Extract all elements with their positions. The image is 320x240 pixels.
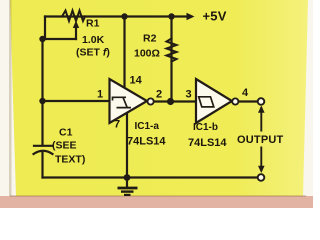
wire top rail [45,15,188,17]
svg-text:TEXT): TEXT) [55,154,85,166]
output arrowhead up [258,106,265,113]
ground stem [126,178,128,188]
wire left rail lower [41,153,43,178]
svg-text:(SEE: (SEE [52,140,77,152]
svg-text:100Ω: 100Ω [134,48,160,60]
svg-text:+5V: +5V [203,9,227,24]
+5V arrowhead [187,13,195,20]
svg-text:IC1-a: IC1-a [135,121,160,132]
wire pin 14 to +5V rail [123,17,125,88]
R1 wiper arrowhead [73,21,79,29]
node top rail / pin14 junction [121,13,127,19]
wire bottom ground rail [43,176,258,178]
svg-text:3: 3 [186,89,192,101]
ground bar 3 [124,194,131,196]
wire pin 1 input [43,100,110,102]
op-amp U1 inverter IC1-a triangle [110,79,148,123]
output terminal top [258,98,265,105]
node pin2/pin3/R2 junction [167,98,174,105]
capacitor C1 curved plate [34,151,53,154]
node top rail / R2 junction [168,13,174,19]
svg-text:14: 14 [130,75,143,87]
svg-text:OUTPUT: OUTPUT [237,134,284,146]
svg-text:R2: R2 [143,33,157,45]
svg-text:2: 2 [156,89,162,101]
ground bar 1 [118,187,138,190]
resistor R1 (potentiometer) zigzag [62,11,85,22]
wire pin4 to output terminal [238,100,257,102]
wire R1 wiper vertical [75,26,77,39]
svg-text:C1: C1 [59,127,73,139]
ground bar 2 [121,190,134,192]
output arrow lower segment [260,147,262,172]
resistor R2 zigzag [167,39,177,62]
node left rail / wiper junction [39,36,45,42]
node left rail / pin1 junction [39,98,45,104]
wire R1 wiper horizontal [43,38,77,40]
IC1-b output bubble [232,98,238,104]
svg-text:(SET f): (SET f) [76,47,110,59]
wire pin2 to pin3 [154,100,196,102]
wire left rail upper [41,39,43,145]
svg-text:4: 4 [242,87,249,99]
capacitor C1 top plate [34,145,52,147]
pink bottom band [0,196,313,208]
IC1-a schmitt hysteresis glyph [113,97,132,107]
resistor R2 wire [170,17,172,102]
node ground rail / pin7 junction [124,174,131,181]
svg-text:IC1-b: IC1-b [193,122,218,133]
svg-text:1.0K: 1.0K [82,34,105,46]
yellow schematic panel [10,0,308,196]
output terminal bottom [258,174,265,181]
wire R1 left terminal drop [44,17,46,40]
svg-text:74LS14: 74LS14 [188,137,227,149]
svg-text:7: 7 [114,119,120,131]
svg-text:1: 1 [97,89,103,101]
svg-text:74LS14: 74LS14 [127,136,166,148]
output arrowhead down [258,166,265,173]
op-amp U2 inverter IC1-b triangle [196,79,232,123]
output arrow upper segment [260,107,262,132]
svg-text:R1: R1 [86,18,100,30]
left page edge smudge [9,0,12,196]
IC1-a output bubble [148,98,154,104]
wire pin 7 to ground rail [126,113,128,178]
IC1-b schmitt hysteresis glyph [199,97,214,107]
